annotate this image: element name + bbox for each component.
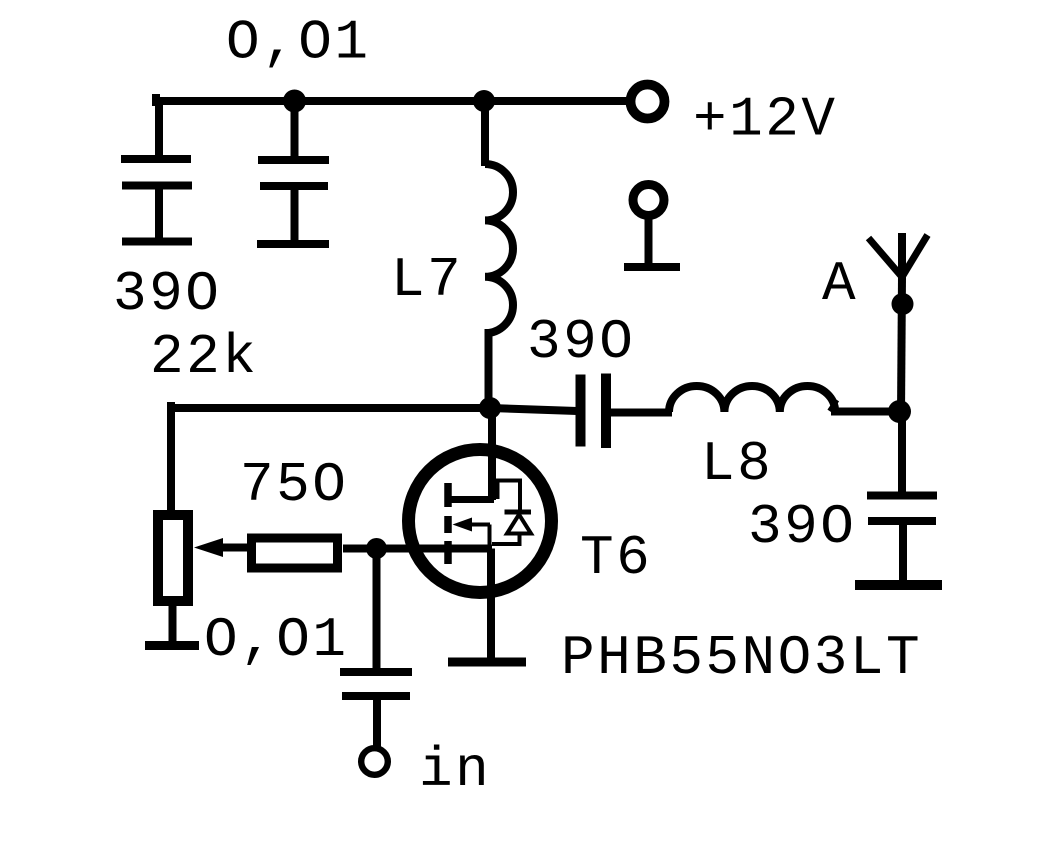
wire drain node to series cap (490, 408, 577, 411)
transistor T6 MOSFET PHB55NO3LT (409, 408, 552, 658)
capacitor 0,01 input coupling (340, 672, 412, 747)
capacitor 390 shunt (antenna) (867, 496, 937, 587)
wire top supply rail (152, 94, 629, 106)
svg-text:+12V: +12V (693, 88, 837, 152)
resistor 750 body (252, 538, 338, 568)
wire antenna mast down to junction (901, 277, 902, 414)
potentiometer 22k body (158, 515, 188, 601)
node on rail above L7 (473, 90, 495, 112)
svg-text:O,O1: O,O1 (226, 11, 370, 75)
ground under T6 source (448, 658, 526, 667)
ground under terminal post (624, 263, 680, 271)
svg-text:39O: 39O (748, 495, 856, 559)
svg-text:A: A (822, 252, 858, 316)
ground under C2 (257, 240, 329, 248)
node input junction (366, 538, 387, 559)
antenna A (869, 233, 928, 280)
ground under potentiometer (145, 641, 199, 650)
wire series cap to L8 (611, 409, 672, 417)
svg-text:O,O1: O,O1 (204, 608, 348, 672)
svg-text:T6: T6 (580, 526, 652, 590)
wiper arrow (194, 538, 249, 557)
node on rail above C2 (283, 90, 306, 113)
wire pot bottom stem (169, 605, 177, 646)
terminal +12V (631, 85, 665, 119)
inductor L8 (669, 386, 893, 412)
ground under C1 (122, 238, 192, 246)
ground under shunt cap (855, 580, 942, 590)
wire gate bias horizontal from pot to node (171, 404, 490, 412)
capacitor C1 (390 bypass, left) (121, 101, 192, 242)
svg-text:L8: L8 (701, 432, 773, 496)
terminal in (361, 748, 388, 775)
inductor L7 (485, 101, 513, 410)
wire junction down to shunt cap (898, 411, 906, 497)
svg-text:75O: 75O (240, 453, 348, 517)
node at L7 bottom / drain (479, 397, 501, 419)
wire pot top riser (167, 402, 175, 514)
wire input junction down to coupling cap (373, 549, 381, 674)
terminal ground post (633, 185, 664, 268)
svg-text:39O: 39O (113, 262, 221, 326)
wire resistor to T6 source corner (343, 545, 492, 553)
svg-text:22k: 22k (150, 325, 258, 389)
capacitor C2 (0,01 bypass) (258, 101, 329, 244)
svg-text:L7: L7 (391, 248, 463, 312)
node A on mast (892, 293, 914, 315)
node antenna junction (888, 400, 911, 423)
svg-text:PHB55NO3LT: PHB55NO3LT (561, 626, 922, 690)
svg-text:in: in (419, 738, 491, 802)
svg-text:39O: 39O (527, 310, 635, 374)
capacitor 390 series (581, 374, 607, 449)
